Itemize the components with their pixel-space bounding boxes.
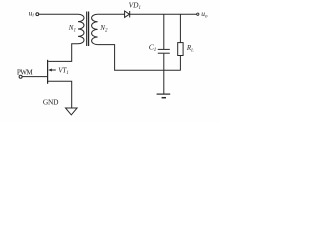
transistor VT1 xyxy=(48,60,56,84)
capacitor C1 xyxy=(158,14,170,94)
diode VD1 xyxy=(125,11,130,17)
ground triangle xyxy=(66,108,78,115)
svg-text:PWM: PWM xyxy=(17,69,33,77)
svg-text:RL: RL xyxy=(186,44,194,53)
wire input to primary xyxy=(39,13,78,15)
terminal u_o xyxy=(197,13,199,15)
wire diode to output xyxy=(130,13,197,15)
resistor RL xyxy=(178,14,183,70)
wire PWM to gate xyxy=(22,76,47,78)
svg-text:VD1: VD1 xyxy=(129,1,141,12)
transformer primary N1 xyxy=(78,14,84,44)
transformer secondary N2 xyxy=(92,14,98,44)
svg-text:C1: C1 xyxy=(149,42,156,53)
wire primary bottom to VT1 drain xyxy=(48,44,78,62)
wire secondary top to diode xyxy=(98,13,125,15)
svg-text:ui: ui xyxy=(29,8,35,18)
wire secondary return rail xyxy=(98,45,181,71)
svg-text:VT1: VT1 xyxy=(58,67,69,77)
wire VT1 source to ground xyxy=(48,81,72,108)
svg-text:GND: GND xyxy=(43,98,59,107)
svg-text:N2: N2 xyxy=(99,24,108,34)
transformer core xyxy=(87,12,89,47)
svg-text:N1: N1 xyxy=(68,24,76,34)
terminal PWM xyxy=(19,75,22,78)
svg-text:uo: uo xyxy=(201,9,208,19)
terminal u_i xyxy=(36,13,39,16)
ground (earth) right xyxy=(157,94,171,98)
